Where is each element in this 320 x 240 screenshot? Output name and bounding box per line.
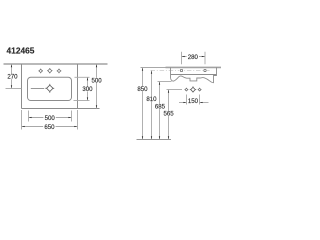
dimension 685 text (154, 104, 166, 109)
svg-text:412465: 412465 (7, 45, 35, 55)
basin inner bowl rounded rectangle (28, 77, 72, 100)
dimension 150 left arrow line (179, 102, 187, 104)
dimension 270 arrows (11, 64, 12, 88)
bottom dimension 650 arrows (22, 126, 78, 127)
dimension 270 extension line (6, 88, 22, 90)
dimension 565 extension line (167, 89, 183, 91)
water connection diamond small left (185, 88, 189, 92)
basin left edge (170, 67, 172, 78)
dimension 500 right arrows (96, 64, 97, 108)
faucet hole diamond right (57, 69, 62, 74)
dimension 685 line (159, 82, 161, 140)
dimension 150 right arrow line (200, 102, 209, 104)
basin slab bottom line (171, 74, 217, 76)
bottom dimension 650 extension bars (21, 110, 23, 130)
fixing hole circle right (203, 68, 207, 72)
dimension 500 right line (96, 64, 98, 109)
dimension 150 extension bars (186, 95, 188, 105)
dimension 300 text (81, 86, 93, 91)
svg-text:650: 650 (44, 124, 55, 131)
dimension 300 line (87, 77, 89, 100)
dimension 850 line (142, 68, 144, 140)
svg-text:685: 685 (155, 104, 166, 111)
bottom dimension 500 arrows (29, 117, 72, 118)
dimension 565 line (168, 90, 170, 140)
dimension 270 line (11, 64, 13, 89)
top surface extension line for 850 (141, 67, 166, 69)
svg-text:810: 810 (146, 96, 157, 103)
faucet hole diamond left (38, 69, 43, 74)
bottom dimension 650 line (22, 126, 78, 128)
wall line (4, 63, 108, 65)
bottom dimension 500 line (29, 117, 72, 119)
water connection diamond big middle (190, 86, 196, 92)
svg-text:270: 270 (7, 74, 18, 81)
basin outer rectangle (22, 64, 100, 109)
dimension 280 extension bars (181, 52, 183, 64)
bottom dimension 650 text (43, 124, 55, 129)
dimension 850 text (136, 86, 148, 91)
dimension 810 arrows (151, 71, 152, 140)
inner bowl top edge extension (75, 76, 90, 78)
dimension 280 text (187, 54, 199, 59)
basin right edge (216, 67, 218, 76)
bottom dimension 500 extension bars (28, 111, 30, 122)
dimension 850 arrows (142, 68, 143, 140)
svg-text:565: 565 (164, 111, 175, 118)
top surface line (166, 66, 222, 68)
drain symbol (45, 84, 54, 93)
bottom dimension 500 text (43, 115, 55, 120)
dimension 500 right text (90, 78, 102, 83)
dimension 810 line (151, 71, 153, 140)
dimension 270 text (6, 74, 18, 79)
faucet hole diamond middle (47, 68, 52, 73)
dimension 565 text (162, 111, 174, 116)
dimension 685 extension line (158, 81, 172, 83)
water connection diamond small right (198, 88, 202, 92)
basin underside profile (171, 76, 217, 83)
floor line (137, 139, 172, 141)
fixing holes centerline (dash-dot) (151, 70, 212, 72)
svg-text:300: 300 (82, 86, 93, 93)
dimension 280 arrows (182, 56, 205, 57)
drain centerline (31, 88, 44, 90)
dimension 280 line (182, 56, 206, 58)
svg-text:850: 850 (137, 86, 148, 93)
inner bowl bottom edge extension (74, 100, 90, 102)
svg-text:500: 500 (45, 115, 56, 122)
dimension 565 arrows (168, 90, 169, 140)
dimension 300 arrows (87, 77, 88, 100)
fixing hole circle left (179, 68, 183, 72)
dimension 810 text (145, 96, 157, 101)
svg-text:280: 280 (188, 54, 199, 61)
dimension 685 arrows (159, 82, 160, 140)
svg-text:500: 500 (92, 78, 103, 85)
svg-text:150: 150 (188, 98, 199, 105)
